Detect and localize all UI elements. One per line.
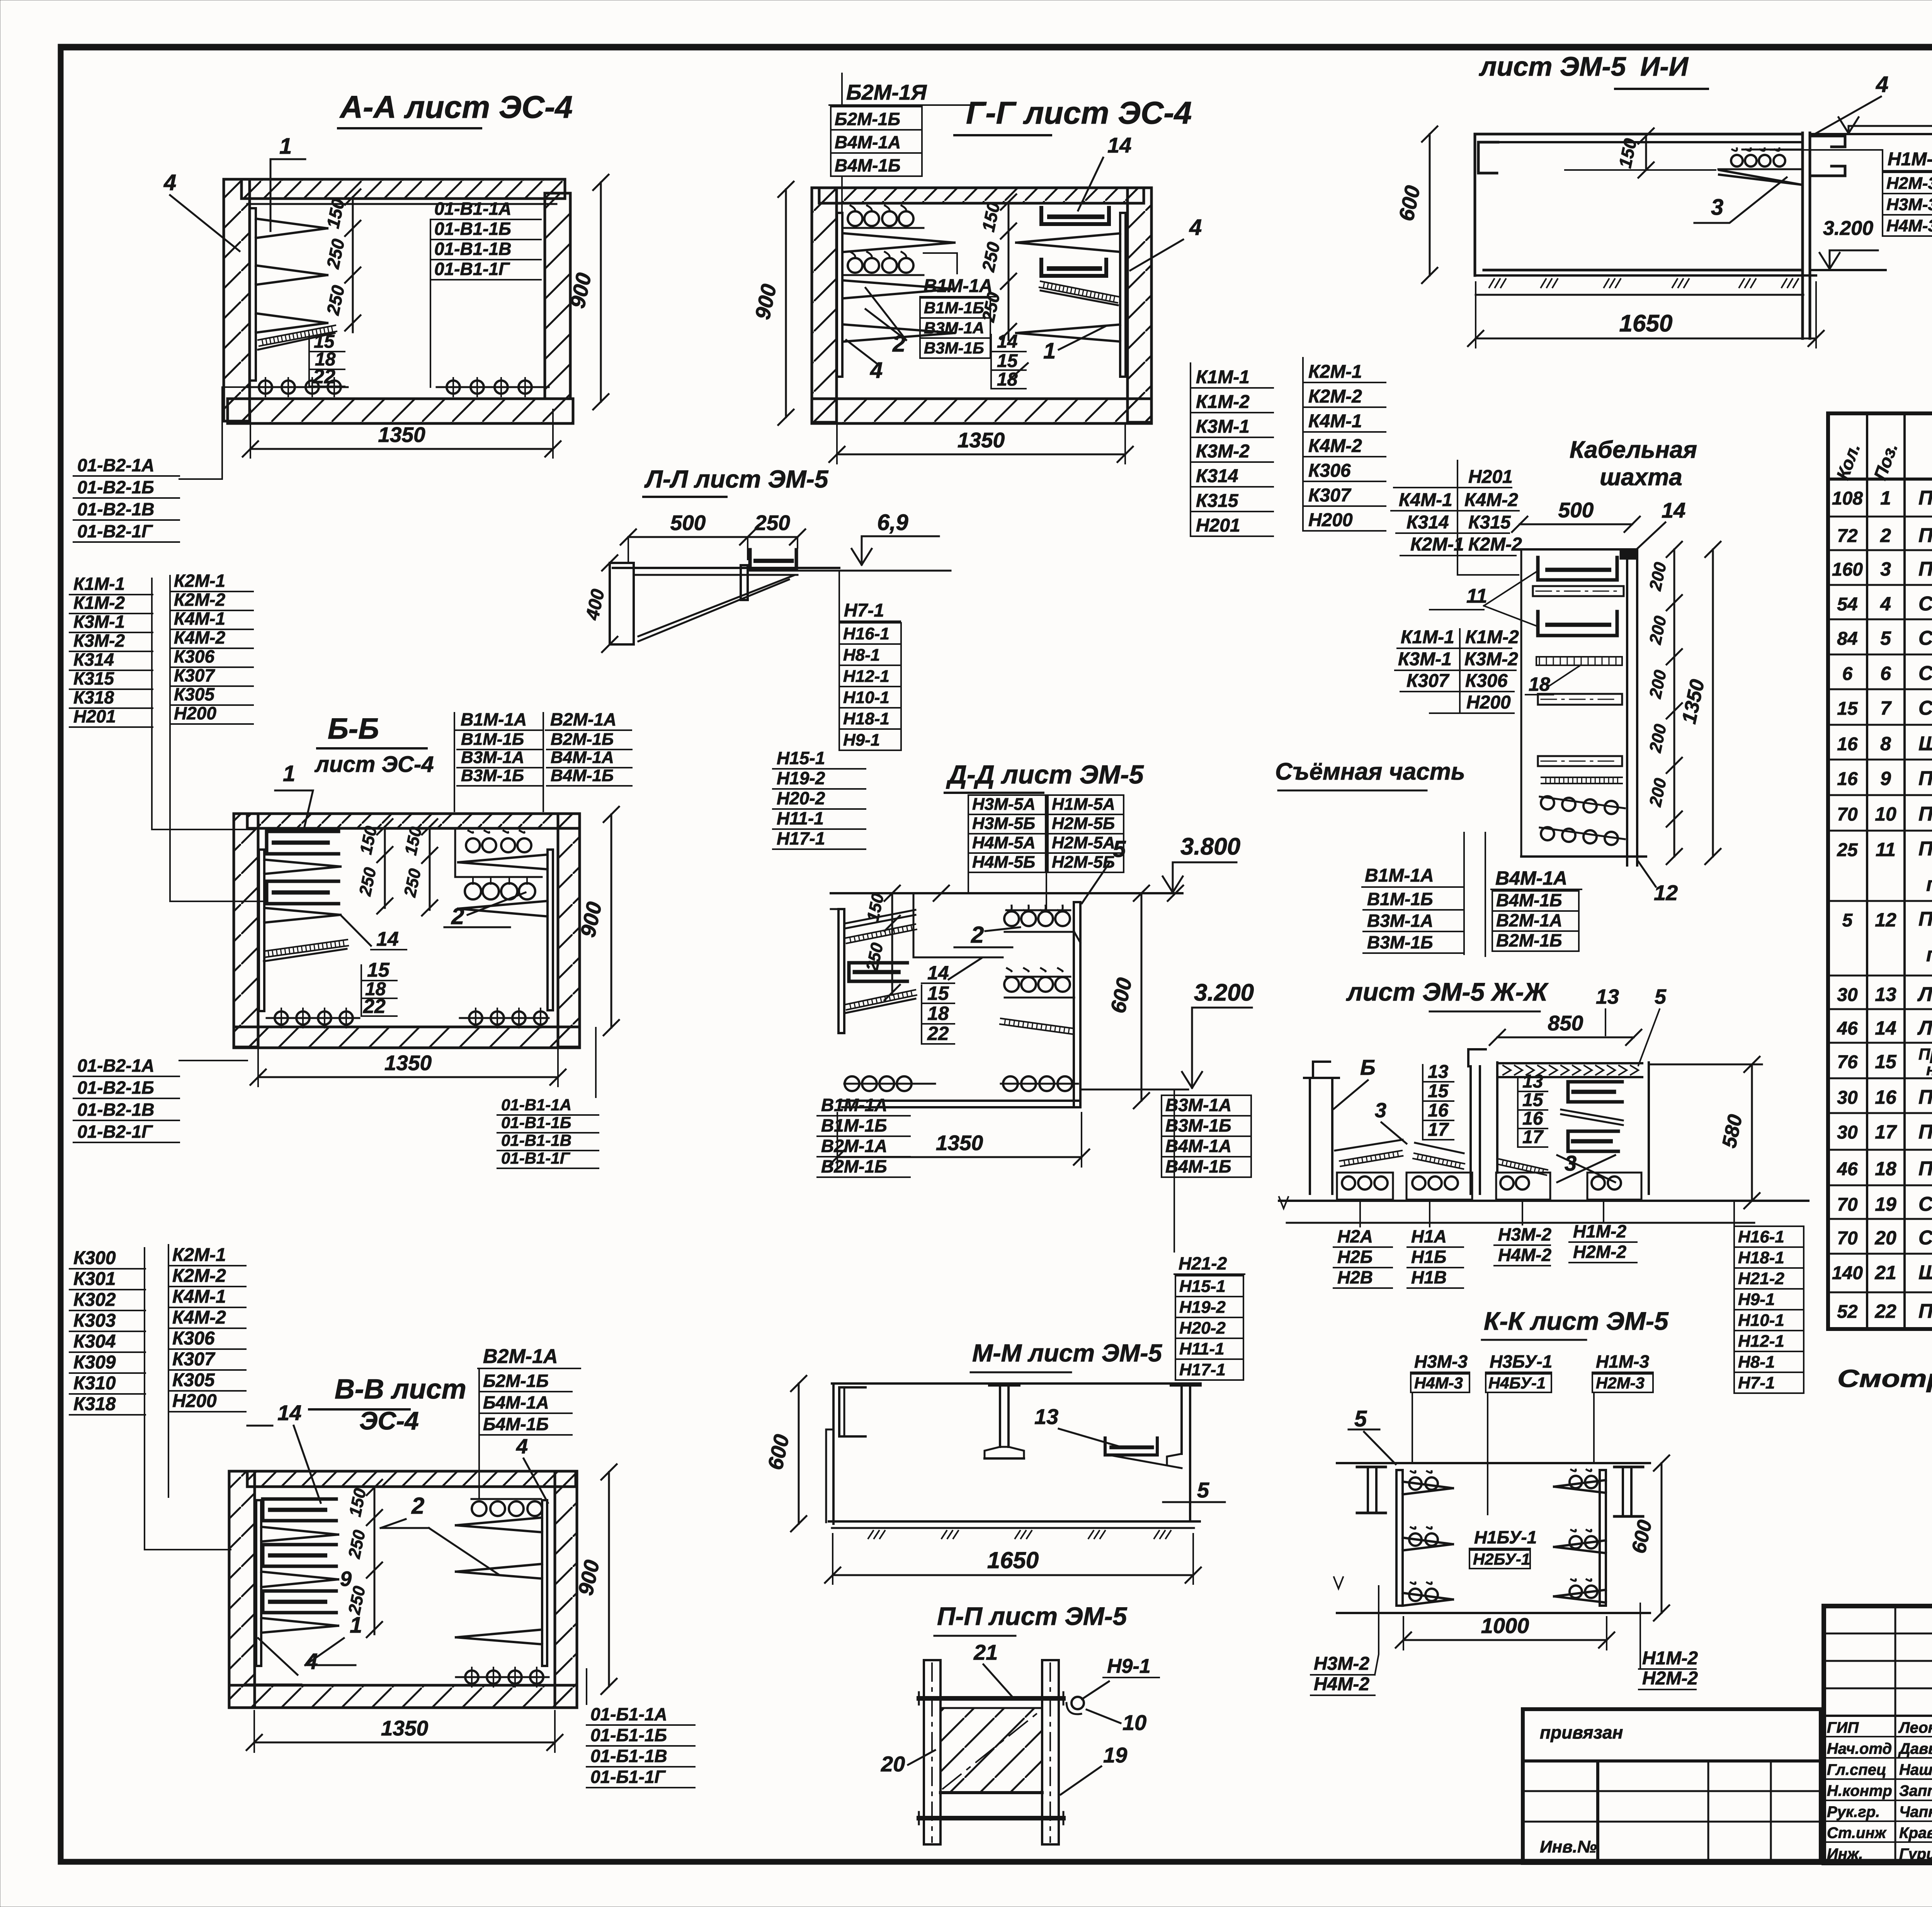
section D-D right rail item 5 <box>1074 902 1080 1107</box>
svg-text:72: 72 <box>1837 526 1858 546</box>
section ZH-ZH ground <box>1279 1200 1808 1202</box>
svg-text:15: 15 <box>1875 1051 1897 1072</box>
section L-L wall strip <box>610 563 634 644</box>
svg-text:К304: К304 <box>73 1331 116 1352</box>
svg-text:2: 2 <box>1880 525 1891 546</box>
svg-text:Давыдов: Давыдов <box>1898 1740 1932 1757</box>
svg-text:Н4М-2: Н4М-2 <box>1314 1674 1369 1695</box>
svg-text:16: 16 <box>1522 1108 1543 1129</box>
svg-text:52: 52 <box>1837 1302 1858 1322</box>
svg-text:К306: К306 <box>174 646 214 666</box>
svg-text:В3М-1А: В3М-1А <box>1367 911 1433 931</box>
svg-text:В1М-1Б: В1М-1Б <box>924 299 984 317</box>
svg-text:01-В2-1А: 01-В2-1А <box>77 455 154 475</box>
svg-text:Н3М-2: Н3М-2 <box>1498 1224 1551 1244</box>
svg-text:В4М-1А: В4М-1А <box>835 132 901 152</box>
section A-A dim 900 <box>600 182 602 402</box>
svg-text:ГИП: ГИП <box>1827 1719 1859 1736</box>
svg-text:Стойка: Стойка <box>1918 593 1932 615</box>
svg-text:Н11-1: Н11-1 <box>1179 1339 1225 1358</box>
svg-text:Н10-1: Н10-1 <box>1738 1311 1784 1330</box>
section V-V tray 1 <box>263 1499 336 1521</box>
svg-text:Н20-2: Н20-2 <box>1179 1319 1226 1338</box>
svg-text:Н17-1: Н17-1 <box>777 828 825 848</box>
svg-text:К4М-2: К4М-2 <box>172 1307 226 1328</box>
svg-text:Леонов: Леонов <box>1898 1719 1932 1736</box>
svg-text:В2М-1Б: В2М-1Б <box>1496 930 1562 950</box>
svg-text:К4М-2: К4М-2 <box>174 627 225 648</box>
svg-text:К-К лист ЭМ-5: К-К лист ЭМ-5 <box>1484 1307 1669 1335</box>
svg-text:54: 54 <box>1837 594 1857 615</box>
svg-text:К306: К306 <box>1465 671 1508 691</box>
svg-text:250: 250 <box>754 511 790 535</box>
section K-K right rail <box>1600 1470 1606 1606</box>
section G-G shelf low-right <box>1016 325 1120 333</box>
svg-text:Нашельский: Нашельский <box>1899 1761 1932 1778</box>
svg-text:Н201: Н201 <box>1468 467 1513 487</box>
svg-text:К305: К305 <box>174 684 215 704</box>
svg-text:01-В1-1А: 01-В1-1А <box>501 1096 571 1114</box>
section K-K cable pairs right <box>1571 1470 1576 1471</box>
svg-text:К318: К318 <box>73 687 114 707</box>
svg-text:Н3М-3: Н3М-3 <box>1886 195 1932 214</box>
svg-text:Н1М-5А: Н1М-5А <box>1052 795 1115 814</box>
svg-text:01-В2-1В: 01-В2-1В <box>77 1100 154 1120</box>
svg-text:16: 16 <box>1875 1086 1897 1108</box>
svg-text:Ст.инж: Ст.инж <box>1827 1825 1887 1842</box>
svg-text:Н2М-3: Н2М-3 <box>1596 1374 1645 1392</box>
section D-D left rail <box>838 909 844 1033</box>
svg-text:К314: К314 <box>1406 512 1449 533</box>
section V-V walls <box>247 1471 576 1487</box>
svg-text:5: 5 <box>1197 1478 1209 1502</box>
section B-B dim 1350 <box>258 1076 558 1078</box>
svg-text:В3М-1А: В3М-1А <box>461 748 524 767</box>
section L-L arm <box>613 567 839 569</box>
svg-text:Н2М-2: Н2М-2 <box>1642 1668 1698 1689</box>
section V-V left upright <box>256 1500 261 1666</box>
svg-text:Н4БУ-1: Н4БУ-1 <box>1488 1374 1546 1392</box>
section B-B dim chains <box>384 827 386 908</box>
svg-text:Н4М-2: Н4М-2 <box>1498 1245 1551 1265</box>
svg-text:6,9: 6,9 <box>877 510 908 535</box>
svg-text:Н9-1: Н9-1 <box>1738 1290 1775 1309</box>
svg-text:К4М-1: К4М-1 <box>1399 490 1452 510</box>
svg-text:К1М-1: К1М-1 <box>73 574 125 594</box>
section G-G left upright <box>837 213 842 377</box>
svg-text:лист ЭС-4: лист ЭС-4 <box>314 752 434 777</box>
svg-text:К314: К314 <box>73 649 114 670</box>
svg-text:Д-Д лист ЭМ-5: Д-Д лист ЭМ-5 <box>946 760 1144 789</box>
svg-text:К309: К309 <box>73 1352 116 1373</box>
svg-text:5: 5 <box>1880 627 1891 649</box>
section V-V cables bottom <box>456 1676 549 1678</box>
svg-text:Н.контр: Н.контр <box>1827 1783 1892 1800</box>
svg-text:перфорированный: перфорированный <box>1926 873 1932 896</box>
svg-text:500: 500 <box>1558 498 1594 522</box>
svg-text:01-Б1-1Б: 01-Б1-1Б <box>590 1725 667 1745</box>
svg-text:1350: 1350 <box>381 1716 429 1740</box>
svg-text:Чапны: Чапны <box>1899 1803 1932 1820</box>
svg-text:Инж.: Инж. <box>1827 1846 1863 1863</box>
svg-text:К315: К315 <box>1196 491 1239 511</box>
svg-text:Н201: Н201 <box>73 706 116 726</box>
section K-K left rail <box>1396 1470 1403 1606</box>
svg-text:20: 20 <box>881 1752 905 1776</box>
svg-text:К306: К306 <box>172 1328 215 1349</box>
svg-text:Н2М-5Б: Н2М-5Б <box>1052 814 1115 833</box>
svg-text:К4М-1: К4М-1 <box>172 1287 226 1307</box>
svg-text:15: 15 <box>367 959 390 981</box>
svg-text:5: 5 <box>1842 910 1853 931</box>
svg-text:3: 3 <box>1711 195 1723 220</box>
section V-V tray 2 <box>263 1545 336 1566</box>
section D-D dim 1350 <box>837 1156 1082 1158</box>
section K-K left I-beam <box>1357 1466 1386 1468</box>
section I-I cables item 3 <box>1742 149 1801 151</box>
section ZH-ZH right X brace pos 3 <box>1557 1155 1615 1182</box>
cable shaft cable row 1 <box>1540 797 1625 808</box>
svg-text:В2М-1А: В2М-1А <box>1496 910 1562 930</box>
svg-text:К3М-2: К3М-2 <box>73 631 125 651</box>
cable shaft body <box>1521 548 1637 551</box>
svg-text:К3М-2: К3М-2 <box>1196 441 1250 462</box>
svg-text:Н20-2: Н20-2 <box>777 788 825 808</box>
svg-text:13: 13 <box>1034 1404 1058 1429</box>
title block frame <box>1824 1606 1932 1863</box>
svg-text:4: 4 <box>870 358 883 383</box>
svg-text:Б2М-1Б: Б2М-1Б <box>483 1371 549 1391</box>
svg-text:1650: 1650 <box>987 1547 1039 1573</box>
section G-G right upright <box>1120 213 1126 377</box>
section M-M right beam <box>1171 1384 1201 1387</box>
svg-text:22: 22 <box>927 1023 949 1044</box>
svg-text:Н15-1: Н15-1 <box>777 748 825 768</box>
section G-G shelf right <box>1016 233 1120 243</box>
section I-I bottom lines <box>1484 269 1801 272</box>
svg-text:В1М-1Б: В1М-1Б <box>461 730 524 749</box>
specification table <box>1828 413 1932 1329</box>
svg-text:1: 1 <box>279 134 292 159</box>
section G-G cable group top-left <box>850 206 855 211</box>
svg-text:140: 140 <box>1832 1263 1863 1283</box>
svg-text:Н9-1: Н9-1 <box>843 731 880 750</box>
svg-text:Перегородка огнестойкая: Перегородка огнестойкая <box>1918 1157 1932 1180</box>
section I-I right column item 4 <box>1801 133 1804 338</box>
svg-text:К302: К302 <box>73 1290 116 1310</box>
svg-text:01-В1-1Б: 01-В1-1Б <box>501 1113 571 1132</box>
svg-text:12: 12 <box>1654 880 1678 905</box>
cable shaft dim 1350 <box>1712 549 1714 857</box>
cable shaft bar 1 <box>1533 586 1624 596</box>
cable shaft perforated strip item 18 <box>1536 657 1622 665</box>
svg-text:Н1М-3: Н1М-3 <box>1596 1351 1649 1372</box>
svg-text:Стойка универсальная: Стойка универсальная <box>1918 1193 1932 1215</box>
svg-text:70: 70 <box>1837 804 1858 825</box>
svg-text:шахта: шахта <box>1600 464 1682 491</box>
section B-B left upright <box>259 850 264 1011</box>
svg-text:18: 18 <box>1529 673 1550 695</box>
svg-text:15: 15 <box>1837 699 1858 719</box>
svg-text:Б: Б <box>1360 1055 1376 1079</box>
svg-text:14: 14 <box>997 331 1017 352</box>
svg-text:21: 21 <box>973 1640 998 1664</box>
svg-text:ЭС-4: ЭС-4 <box>359 1406 419 1435</box>
svg-text:14: 14 <box>277 1401 301 1425</box>
svg-text:К307: К307 <box>174 665 215 685</box>
section D-D recess step <box>913 893 1003 957</box>
svg-text:В2М-1Б: В2М-1Б <box>551 730 614 749</box>
section G-G dim 1350 <box>837 454 1125 456</box>
svg-text:К2М-1: К2М-1 <box>172 1245 226 1265</box>
section V-V dim 900 <box>608 1472 610 1686</box>
section ZH-ZH dim 580 <box>1751 1064 1753 1201</box>
section P-P left post <box>924 1660 940 1844</box>
privyazan block <box>1523 1709 1821 1863</box>
section B-B dim 900 <box>611 814 612 1028</box>
svg-text:К1М-2: К1М-2 <box>1196 392 1250 412</box>
svg-text:2: 2 <box>411 1493 424 1519</box>
svg-text:16: 16 <box>1837 734 1858 755</box>
svg-text:В2М-1Б: В2М-1Б <box>821 1156 887 1176</box>
svg-text:14: 14 <box>927 962 949 984</box>
svg-text:Съёмная часть: Съёмная часть <box>1275 758 1465 785</box>
section I-I dim 600 <box>1429 134 1431 275</box>
svg-text:Н2М-5Б: Н2М-5Б <box>1052 853 1115 872</box>
svg-text:1350: 1350 <box>957 428 1005 452</box>
svg-text:4: 4 <box>1876 72 1888 97</box>
svg-text:Б4М-1Б: Б4М-1Б <box>483 1414 549 1434</box>
svg-text:Н2В: Н2В <box>1337 1267 1373 1287</box>
svg-text:Кравцова: Кравцова <box>1899 1825 1932 1842</box>
svg-text:Н1А: Н1А <box>1411 1226 1447 1246</box>
svg-text:Профиль монтажный: Профиль монтажный <box>1918 908 1932 930</box>
svg-text:Н200: Н200 <box>174 703 216 723</box>
svg-text:01-Б1-1Г: 01-Б1-1Г <box>590 1767 666 1787</box>
svg-text:М-М лист ЭМ-5: М-М лист ЭМ-5 <box>972 1339 1163 1367</box>
svg-text:Стойка: Стойка <box>1918 1227 1932 1249</box>
svg-text:76: 76 <box>1837 1052 1858 1072</box>
svg-text:К2М-2: К2М-2 <box>174 590 225 610</box>
svg-text:Н7-1: Н7-1 <box>1738 1373 1775 1392</box>
svg-text:В1М-1Б: В1М-1Б <box>821 1115 887 1135</box>
section ZH-ZH shelves with cables <box>1337 1173 1393 1200</box>
svg-text:Гл.спец: Гл.спец <box>1827 1761 1886 1778</box>
section V-V cables top-right <box>471 1498 541 1500</box>
section K-K cable pairs left <box>1411 1471 1415 1473</box>
section V-V dim 1350 <box>254 1742 555 1744</box>
cable shaft bar 2 <box>1538 694 1622 705</box>
svg-text:1650: 1650 <box>1619 310 1673 337</box>
section K-K top and bottom lines <box>1337 1462 1650 1464</box>
svg-text:В4М-1Б: В4М-1Б <box>1165 1156 1231 1176</box>
svg-text:14: 14 <box>1875 1017 1896 1039</box>
svg-text:Н18-1: Н18-1 <box>1738 1248 1784 1267</box>
svg-text:4: 4 <box>1189 215 1202 240</box>
svg-text:10: 10 <box>1875 803 1896 825</box>
svg-text:В2М-1А: В2М-1А <box>550 709 616 729</box>
svg-text:В4М-1Б: В4М-1Б <box>835 155 901 175</box>
section P-P right post <box>1042 1660 1059 1844</box>
cable shaft bar 3 <box>1538 756 1622 766</box>
svg-text:Подвеска: Подвеска <box>1918 1086 1932 1108</box>
svg-text:3.800: 3.800 <box>1180 833 1240 860</box>
svg-text:1350: 1350 <box>378 423 425 447</box>
section A-A walls <box>241 179 565 199</box>
section L-L dim 250 <box>748 536 798 538</box>
svg-text:К4М-2: К4М-2 <box>1464 490 1518 510</box>
section A-A cables right <box>437 386 549 388</box>
svg-text:К1М-2: К1М-2 <box>73 593 125 613</box>
svg-text:01-В1-1Б: 01-В1-1Б <box>434 219 511 239</box>
svg-text:Н10-1: Н10-1 <box>843 688 889 707</box>
svg-text:К307: К307 <box>1406 671 1450 691</box>
svg-text:2: 2 <box>451 903 464 929</box>
svg-text:К305: К305 <box>172 1370 215 1390</box>
svg-text:1350: 1350 <box>384 1051 432 1075</box>
svg-text:Н4М-5Б: Н4М-5Б <box>972 853 1035 872</box>
svg-text:Н3М-5Б: Н3М-5Б <box>972 814 1035 833</box>
svg-text:70: 70 <box>1837 1228 1858 1249</box>
svg-text:3.200: 3.200 <box>1823 217 1873 240</box>
label stack V4M above ZH-ZH vertical <box>1485 833 1486 956</box>
svg-text:К2М-1: К2М-1 <box>1308 362 1362 382</box>
svg-text:К1М-1: К1М-1 <box>1401 627 1454 648</box>
svg-text:Н200: Н200 <box>1308 510 1353 530</box>
svg-text:1: 1 <box>350 1613 362 1638</box>
svg-text:А-А лист ЭС-4: А-А лист ЭС-4 <box>339 90 573 125</box>
svg-text:18: 18 <box>1875 1158 1896 1180</box>
svg-text:01-В2-1В: 01-В2-1В <box>77 499 154 519</box>
svg-text:Профиль монтажный: Профиль монтажный <box>1918 838 1932 860</box>
svg-text:К3М-1: К3М-1 <box>1196 416 1250 437</box>
svg-text:И-И: И-И <box>1640 51 1689 82</box>
svg-text:лист ЭМ-5: лист ЭМ-5 <box>1479 51 1626 82</box>
section B-B cable group top-right <box>454 828 456 877</box>
svg-text:Н21-2: Н21-2 <box>1738 1269 1784 1288</box>
svg-text:22: 22 <box>313 365 335 388</box>
section D-D bottom lines <box>838 1100 1080 1102</box>
section M-M tray item 13 <box>1105 1438 1157 1455</box>
svg-text:4: 4 <box>305 1649 318 1674</box>
svg-text:К2М-1: К2М-1 <box>1410 534 1464 555</box>
svg-text:К3М-1: К3М-1 <box>1398 649 1452 670</box>
section I-I top right bracket <box>1811 136 1845 147</box>
svg-text:3: 3 <box>1565 1151 1577 1175</box>
section P-P hatched panel <box>940 1708 1042 1793</box>
section B-B leaders from K stacks <box>151 578 153 829</box>
section D-D cables bottom-right <box>1001 1083 1078 1085</box>
svg-text:16: 16 <box>1428 1100 1449 1121</box>
svg-text:15: 15 <box>997 351 1018 371</box>
svg-text:Н2БУ-1: Н2БУ-1 <box>1473 1550 1530 1568</box>
svg-text:Н3М-5А: Н3М-5А <box>972 795 1036 814</box>
svg-text:22: 22 <box>363 995 386 1018</box>
svg-text:В-В лист: В-В лист <box>335 1374 466 1405</box>
svg-text:В4М-1А: В4М-1А <box>1495 867 1567 889</box>
svg-text:Н1М-2: Н1М-2 <box>1642 1648 1698 1669</box>
svg-text:Лоток прямой: Лоток прямой <box>1917 1017 1932 1039</box>
svg-text:Н1Б: Н1Б <box>1411 1247 1446 1267</box>
svg-text:Н3М-3: Н3М-3 <box>1414 1351 1468 1372</box>
svg-text:1: 1 <box>1880 487 1891 509</box>
svg-text:15: 15 <box>1428 1081 1449 1101</box>
section L-L tray <box>750 550 796 570</box>
svg-text:Н200: Н200 <box>1466 692 1511 713</box>
svg-text:18: 18 <box>927 1003 949 1024</box>
svg-text:Н7-1: Н7-1 <box>844 600 884 621</box>
svg-text:108: 108 <box>1832 488 1863 509</box>
svg-text:1: 1 <box>1043 338 1056 364</box>
section ZH-ZH right tray A <box>1568 1082 1622 1102</box>
svg-text:01-В2-1Г: 01-В2-1Г <box>77 521 153 541</box>
svg-text:В4М-1Б: В4М-1Б <box>551 766 614 785</box>
svg-text:19: 19 <box>1103 1743 1127 1767</box>
cable shaft hatched strip <box>1541 777 1622 778</box>
svg-text:1000: 1000 <box>1481 1613 1529 1638</box>
section B-B cable group mid-right <box>465 883 481 899</box>
cable shaft dim 500 <box>1520 523 1632 525</box>
section I-I left wall bracket <box>1478 142 1498 173</box>
svg-text:К2М-2: К2М-2 <box>1468 534 1522 555</box>
section D-D cable group mid-right <box>1006 976 1070 978</box>
section A-A dim chain 150 250 250 <box>352 197 354 332</box>
svg-text:ния лотков: ния лотков <box>1926 1061 1932 1079</box>
svg-text:Н12-1: Н12-1 <box>843 667 889 686</box>
svg-text:11: 11 <box>1876 839 1896 860</box>
svg-text:Б4М-1А: Б4М-1А <box>483 1392 549 1412</box>
section D-D left tray 2 <box>845 990 915 1004</box>
svg-text:Рук.гр.: Рук.гр. <box>1827 1803 1880 1820</box>
svg-text:К2М-2: К2М-2 <box>172 1266 226 1286</box>
section M-M dim 1650 <box>833 1574 1193 1576</box>
svg-text:1350: 1350 <box>936 1131 983 1155</box>
section G-G cable group mid-left <box>850 252 855 257</box>
svg-text:Лоток прямой: Лоток прямой <box>1917 983 1932 1006</box>
svg-text:30: 30 <box>1837 1122 1858 1143</box>
svg-text:Н12-1: Н12-1 <box>1738 1332 1784 1351</box>
svg-text:Заптарева: Заптарева <box>1899 1783 1932 1800</box>
svg-text:2: 2 <box>971 922 984 948</box>
section G-G walls <box>819 188 1144 203</box>
svg-text:Н1В: Н1В <box>1411 1267 1447 1287</box>
section L-L dim 500 <box>628 536 748 538</box>
svg-text:лист ЭМ-5 Ж-Ж: лист ЭМ-5 Ж-Ж <box>1346 977 1549 1006</box>
svg-text:В3М-1А: В3М-1А <box>924 319 984 337</box>
svg-text:К4М-1: К4М-1 <box>174 608 225 629</box>
svg-text:6: 6 <box>1880 663 1891 684</box>
section B-B right upright <box>548 850 553 1010</box>
svg-text:В1М-1А: В1М-1А <box>923 276 993 296</box>
svg-text:01-В1-1Г: 01-В1-1Г <box>434 259 510 279</box>
section ZH-ZH right frame item 5 <box>1496 1062 1498 1173</box>
svg-text:46: 46 <box>1837 1018 1858 1039</box>
section G-G tray mid-right <box>1041 260 1106 276</box>
svg-text:К318: К318 <box>73 1394 116 1414</box>
section I-I dim 1650 <box>1476 338 1816 340</box>
svg-text:Стойка: Стойка <box>1918 627 1932 649</box>
section M-M left channel <box>839 1387 866 1436</box>
svg-text:01-В2-1Б: 01-В2-1Б <box>77 477 154 497</box>
cable shaft dim chain 200 <box>1673 549 1675 857</box>
svg-text:Н200: Н200 <box>172 1391 217 1411</box>
section D-D left tray 1 <box>845 910 915 923</box>
svg-text:К1М-1: К1М-1 <box>1196 367 1250 388</box>
svg-text:4: 4 <box>1880 593 1891 615</box>
svg-text:4: 4 <box>516 1435 528 1458</box>
svg-text:Полка кабельная: Полка кабельная <box>1918 524 1932 547</box>
section K-K right I-beam <box>1614 1466 1643 1468</box>
